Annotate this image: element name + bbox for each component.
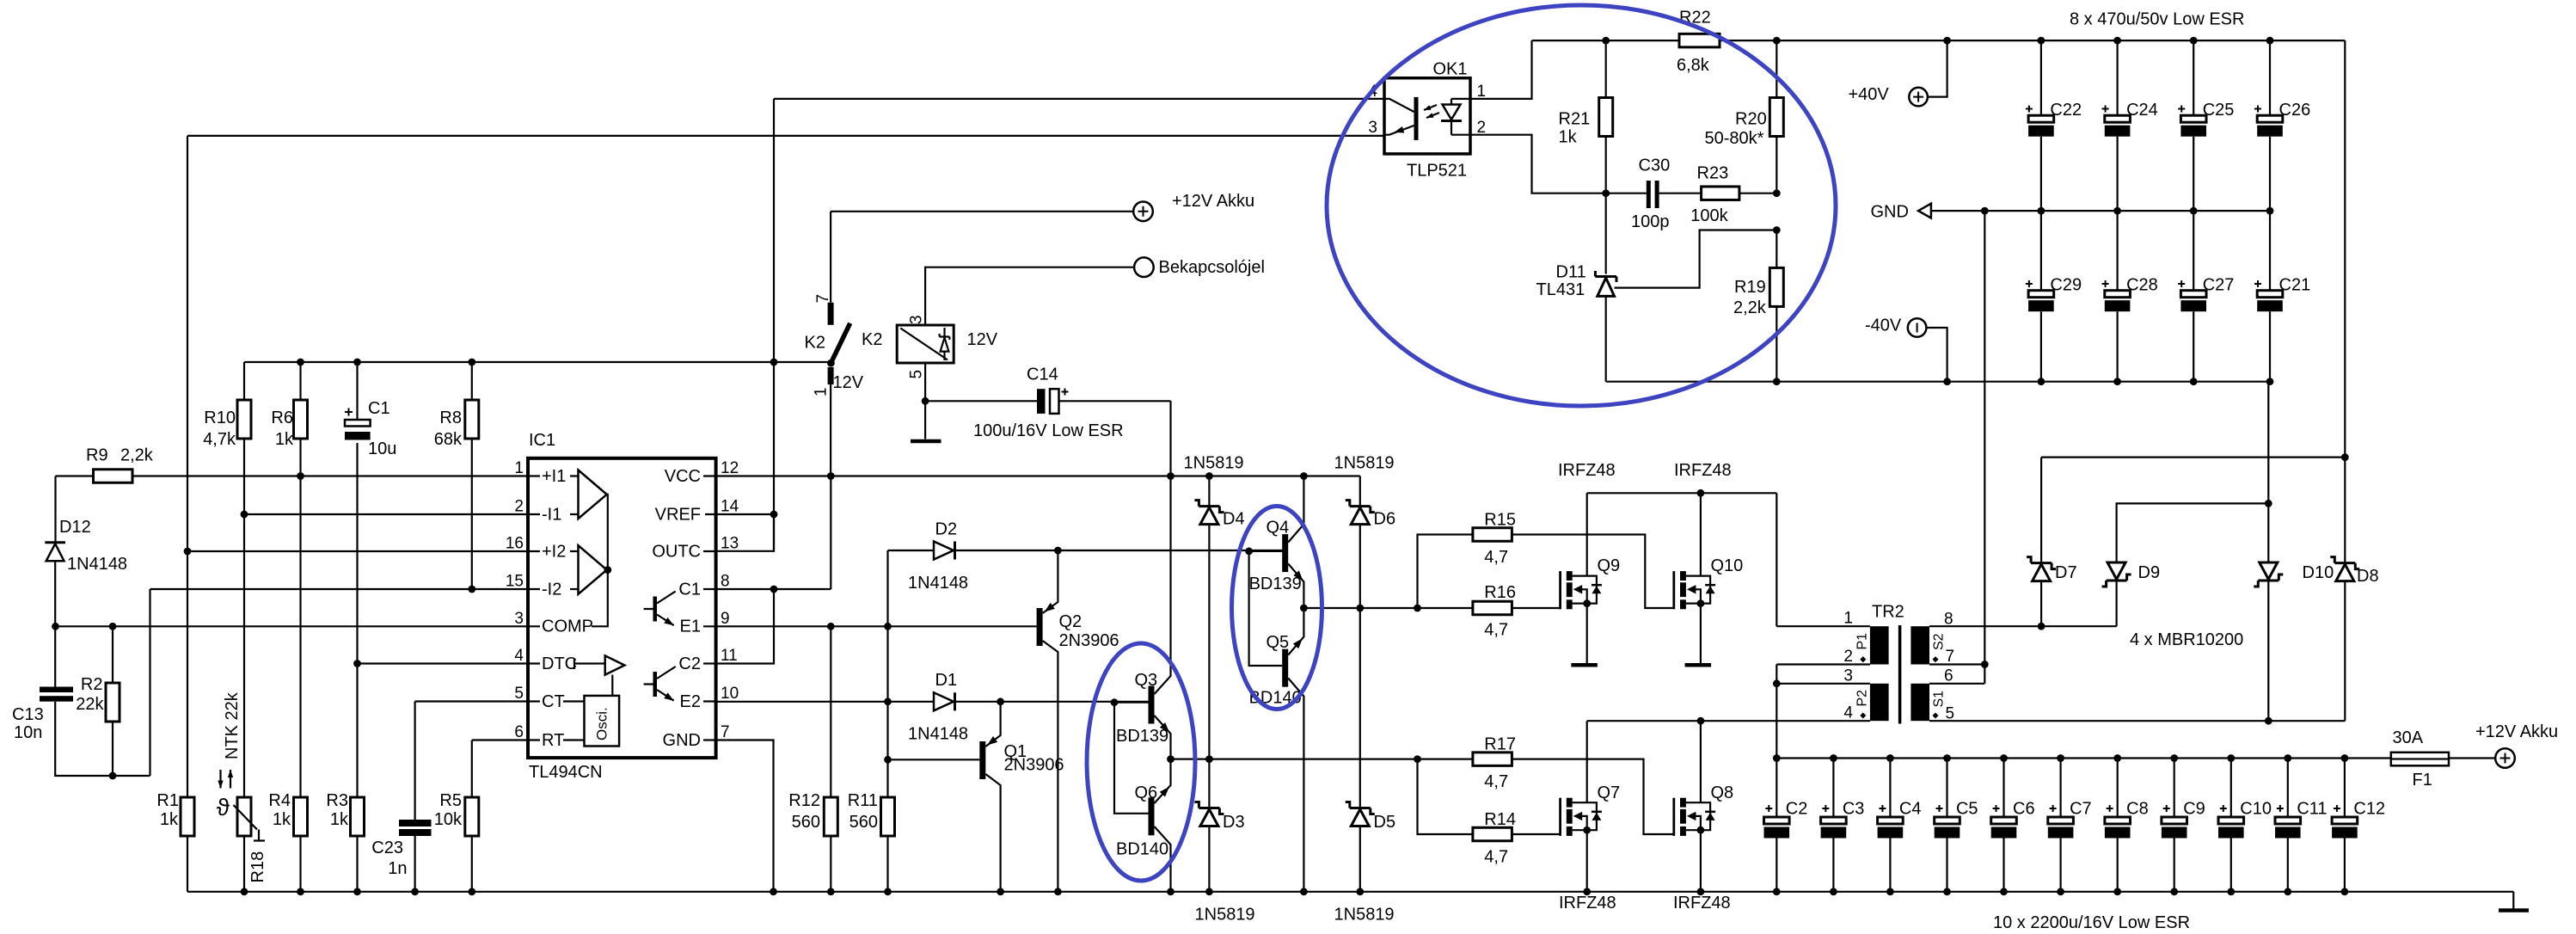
- capacitor C14 100u: [925, 400, 1037, 402]
- svg-text:16: 16: [506, 535, 524, 553]
- svg-text:C4: C4: [1899, 800, 1922, 819]
- svg-text:R4: R4: [268, 791, 291, 810]
- svg-text:4,7: 4,7: [1484, 548, 1508, 567]
- capacitor C6 2200u: [2003, 759, 2004, 818]
- svg-text:R5: R5: [439, 791, 462, 810]
- svg-text:D1: D1: [935, 671, 958, 690]
- capacitor C7 2200u: [2060, 759, 2062, 818]
- svg-text:NTK 22k: NTK 22k: [223, 691, 242, 759]
- svg-text:Osci.: Osci.: [594, 707, 610, 740]
- wire upper drain bus to TR2 pin1: [1587, 493, 1777, 626]
- svg-text:C8: C8: [2126, 800, 2149, 819]
- transformer TR2 secondary S2: [1911, 626, 1929, 664]
- svg-text:Q10: Q10: [1711, 556, 1744, 575]
- svg-text:C26: C26: [2279, 101, 2311, 120]
- wire -I2 riser: [149, 589, 150, 776]
- svg-text:D2: D2: [935, 520, 958, 539]
- diode D12 1N4148: [54, 476, 56, 543]
- svg-text:F1: F1: [2413, 771, 2432, 790]
- diode D8 MBR10200: [2344, 458, 2346, 722]
- svg-text:Q6: Q6: [1135, 783, 1158, 802]
- wire opamp outputs to COMP: [592, 495, 608, 626]
- svg-text:C11: C11: [2297, 800, 2327, 819]
- svg-text:22k: 22k: [76, 695, 104, 714]
- svg-text:C2: C2: [1786, 800, 1808, 819]
- diode D1 1N4148: [934, 692, 954, 710]
- svg-text:1: 1: [813, 387, 831, 396]
- transformer TR2 secondary S1: [1911, 684, 1929, 721]
- svg-text:12V: 12V: [967, 330, 998, 349]
- ellipse highlight Q4/Q5: [1232, 507, 1322, 710]
- svg-text:2: 2: [514, 498, 524, 516]
- resistor R8 68k: [471, 362, 473, 589]
- diode D3 1N5819: [1194, 802, 1224, 814]
- wire pin6 RT: [472, 739, 529, 740]
- capacitor C13 10n: [40, 687, 73, 693]
- svg-text:4: 4: [514, 647, 524, 665]
- terminal Bekapcsolojel circle: [1134, 257, 1154, 277]
- svg-text:4,7: 4,7: [1484, 772, 1508, 791]
- capacitor C30 100p: [1647, 181, 1651, 208]
- svg-text:D12: D12: [59, 518, 91, 537]
- svg-text:E1: E1: [680, 618, 701, 636]
- relay suppressor diode: [940, 334, 950, 340]
- wire relay pin3 to Bekapcsolojel: [925, 267, 1134, 325]
- svg-text:2,2k: 2,2k: [120, 446, 154, 465]
- svg-text:IRFZ48: IRFZ48: [1673, 894, 1731, 912]
- wire pin15 -I2: [150, 588, 530, 590]
- svg-text:R19: R19: [1734, 278, 1766, 297]
- resistor R5 10k: [465, 797, 479, 836]
- svg-text:RT: RT: [542, 731, 564, 750]
- capacitor C2 2200u: [1776, 759, 1777, 818]
- capacitor C28: [2117, 211, 2119, 291]
- capacitor C10 2200u: [2230, 759, 2232, 818]
- svg-text:R1: R1: [156, 791, 179, 810]
- svg-text:R3: R3: [326, 791, 348, 810]
- svg-text:2: 2: [1843, 648, 1853, 666]
- svg-text:C25: C25: [2203, 101, 2235, 120]
- capacitor C24: [2117, 40, 2119, 115]
- svg-text:C10: C10: [2240, 800, 2272, 819]
- svg-text:R12: R12: [788, 791, 820, 810]
- svg-text:1N4148: 1N4148: [908, 725, 968, 744]
- wire C1 pin8 to VCC and C2 pin11: [716, 476, 831, 664]
- wire lower driver output: [1171, 758, 1418, 759]
- capacitor C9 2200u: [2174, 759, 2175, 818]
- resistor R11 560: [886, 626, 888, 892]
- transistor Q6 BD140: [1149, 797, 1155, 835]
- capacitor C29: [2040, 211, 2042, 291]
- capacitor C26: [2269, 40, 2271, 115]
- svg-text:D10: D10: [2303, 563, 2334, 582]
- svg-text:-40V: -40V: [1865, 316, 1902, 335]
- transformer TR2 core: [1898, 625, 1902, 724]
- svg-text:TL431: TL431: [1536, 280, 1585, 299]
- svg-text:R15: R15: [1484, 511, 1516, 530]
- svg-text:14: 14: [721, 498, 739, 516]
- resistor R16 4,7: [1414, 605, 1421, 612]
- diode D5 1N5819: [1346, 802, 1375, 814]
- resistor R10 4,7k: [243, 362, 245, 797]
- svg-text:C12: C12: [2353, 800, 2385, 819]
- switch K2: [830, 212, 831, 303]
- svg-text:C6: C6: [2013, 800, 2035, 819]
- svg-text:CT: CT: [542, 692, 565, 711]
- wire upper driver output: [1303, 607, 1417, 609]
- transistor Q3 BD139: [1149, 686, 1155, 724]
- diode D2 1N4148: [888, 550, 1284, 626]
- svg-text:15: 15: [506, 573, 524, 591]
- terminal +12V Akku circle: [1133, 202, 1153, 222]
- svg-text:D6: D6: [1374, 510, 1396, 529]
- svg-text:R17: R17: [1484, 735, 1516, 754]
- terminal GND arrow: [1918, 204, 1931, 218]
- svg-text:4,7k: 4,7k: [203, 430, 236, 449]
- wire right edge vertical from top rail: [2344, 40, 2346, 457]
- resistor R17 4,7: [1414, 755, 1421, 763]
- svg-text:VCC: VCC: [665, 467, 701, 486]
- svg-text:C28: C28: [2126, 276, 2158, 295]
- svg-text:1N4148: 1N4148: [67, 555, 127, 574]
- capacitor C8 2200u: [2117, 759, 2119, 818]
- wire OK1 pin3 line: [187, 135, 1384, 137]
- resistor R1 1k: [181, 797, 194, 836]
- capacitor C12 2200u: [2344, 759, 2346, 818]
- wire OK1 pin2 down to C30 line: [1470, 135, 1647, 194]
- svg-text:P1: P1: [1855, 633, 1870, 650]
- svg-text:2N3906: 2N3906: [1059, 631, 1119, 650]
- svg-text:C23: C23: [371, 839, 403, 857]
- svg-text:6: 6: [1944, 667, 1953, 685]
- svg-text:100k: 100k: [1690, 206, 1728, 225]
- op-amp 2 error amp: [579, 545, 607, 594]
- wire vertical x900 (pin4 feed / VREF): [773, 99, 775, 551]
- node COMP/left vertical: [52, 623, 59, 630]
- capacitor C23 1n: [414, 702, 416, 892]
- transistor Q1 2N3906: [979, 741, 985, 779]
- capacitor C11 2200u: [2287, 759, 2289, 818]
- svg-text:1k: 1k: [275, 430, 294, 449]
- svg-text:C14: C14: [1027, 366, 1058, 384]
- resistor R15 4,7: [1418, 535, 1473, 609]
- wire D7 top line: [2041, 456, 2345, 458]
- svg-text:C30: C30: [1639, 157, 1671, 175]
- capacitor C22: [2040, 40, 2042, 115]
- wire lower drain bus to TR2 pin4: [1587, 720, 1870, 722]
- svg-text:IRFZ48: IRFZ48: [1674, 461, 1732, 480]
- svg-text:560: 560: [792, 813, 820, 832]
- svg-text:R8: R8: [439, 409, 462, 427]
- svg-text:10k: 10k: [434, 810, 463, 829]
- wire E2 pin10 / D1 line: [716, 701, 1150, 703]
- svg-text:12: 12: [721, 459, 739, 477]
- svg-text:6,8k: 6,8k: [1677, 56, 1710, 75]
- svg-text:Q8: Q8: [1711, 783, 1734, 802]
- svg-text:C9: C9: [2183, 800, 2205, 819]
- ground below relay: [924, 401, 926, 439]
- svg-text:D4: D4: [1223, 510, 1245, 529]
- svg-text:R23: R23: [1697, 164, 1729, 183]
- oscillator box Osci.: [585, 696, 620, 747]
- svg-text:D7: D7: [2055, 563, 2077, 582]
- resistor R20 50-80k: [1776, 40, 1777, 194]
- svg-text:C22: C22: [2050, 101, 2082, 120]
- svg-text:50-80k*: 50-80k*: [1705, 129, 1764, 148]
- svg-text:K2: K2: [862, 330, 882, 349]
- svg-text:1k: 1k: [330, 810, 349, 829]
- svg-text:D5: D5: [1374, 813, 1396, 832]
- svg-text:C27: C27: [2203, 276, 2235, 295]
- svg-text:Q5: Q5: [1267, 633, 1290, 652]
- wire pin5 CT: [415, 700, 529, 702]
- svg-text:1N5819: 1N5819: [1184, 454, 1244, 473]
- optocoupler phototransistor: [1414, 97, 1419, 140]
- node bus/x900 junction: [770, 359, 778, 366]
- terminal +40V: [1909, 88, 1928, 107]
- wire column x218 (pin3 line down to R1): [187, 136, 188, 797]
- svg-text:4,7: 4,7: [1484, 621, 1508, 640]
- node +I2 junction: [184, 548, 192, 556]
- transistor Q2 2N3906: [1037, 608, 1043, 646]
- wire pin3 COMP: [56, 625, 530, 627]
- svg-text:OUTC: OUTC: [652, 542, 701, 561]
- svg-text:S2: S2: [1932, 633, 1947, 650]
- svg-text:GND: GND: [663, 731, 701, 750]
- svg-text:2,2k: 2,2k: [1733, 298, 1767, 317]
- svg-text:4: 4: [1843, 704, 1853, 722]
- svg-text:5: 5: [1946, 705, 1955, 723]
- svg-text:D9: D9: [2138, 563, 2161, 582]
- svg-text:IRFZ48: IRFZ48: [1559, 894, 1616, 912]
- svg-text:-I1: -I1: [542, 505, 561, 524]
- resistor R9: [56, 475, 530, 476]
- svg-text:7: 7: [721, 723, 730, 741]
- capacitor C1 10u: [356, 362, 358, 664]
- svg-text:8 x 470u/50v Low ESR: 8 x 470u/50v Low ESR: [2070, 10, 2244, 29]
- optocoupler OK1 TLP521 box: [1384, 78, 1470, 154]
- svg-text:9: 9: [721, 610, 730, 628]
- wire VCC line pin12: [716, 475, 1360, 476]
- svg-text:100u/16V Low ESR: 100u/16V Low ESR: [973, 421, 1124, 440]
- svg-text:BD140: BD140: [1116, 840, 1168, 859]
- svg-text:C1: C1: [368, 399, 390, 418]
- capacitor C3 2200u: [1832, 759, 1834, 818]
- svg-text:R16: R16: [1484, 583, 1516, 602]
- svg-text:Bekapcsolójel: Bekapcsolójel: [1159, 258, 1265, 277]
- wire OK1 pin1 to top rail: [1470, 40, 1532, 99]
- svg-text:C3: C3: [1843, 800, 1865, 819]
- svg-text:C1: C1: [678, 580, 701, 599]
- svg-text:C29: C29: [2050, 276, 2082, 295]
- capacitor C4 2200u: [1889, 759, 1891, 818]
- resistor R21 1k: [1605, 40, 1607, 194]
- wire +12V rail: [1776, 757, 2391, 759]
- svg-text:1n: 1n: [388, 859, 407, 878]
- svg-text:IRFZ48: IRFZ48: [1558, 461, 1616, 480]
- svg-text:100p: 100p: [1631, 212, 1670, 231]
- svg-text:GND: GND: [1871, 203, 1909, 222]
- transistor Q10 IRFZ48: [1672, 571, 1675, 609]
- resistor R18 NTC trimmer: [237, 797, 251, 836]
- svg-text:P2: P2: [1855, 690, 1870, 707]
- wire E1 pin9: [716, 625, 1037, 627]
- wire TL431 ref: [1615, 230, 1777, 288]
- svg-text:10u: 10u: [368, 439, 396, 458]
- svg-text:R18: R18: [248, 851, 267, 883]
- diode D4 1N5819: [1208, 476, 1210, 808]
- svg-text:IC1: IC1: [529, 431, 555, 450]
- optocoupler light arrows: [1424, 105, 1439, 118]
- terminal +12V Akku right: [2495, 748, 2515, 768]
- wire top rail: [1532, 40, 2346, 41]
- wire OK1 pin4 line: [774, 98, 1384, 100]
- diode D7 MBR10200: [2040, 458, 2042, 627]
- node pin1/R6 junction: [297, 472, 304, 480]
- diode D11 TL431: [1605, 194, 1607, 274]
- wire GND pin7: [716, 740, 774, 892]
- wire +12V Akku line: [831, 211, 1133, 212]
- svg-text:C13: C13: [12, 705, 44, 724]
- svg-text:5: 5: [908, 370, 926, 379]
- svg-text:-I2: -I2: [542, 580, 561, 599]
- op-amp IC1 TL494CN box: [528, 458, 716, 758]
- svg-text:Q9: Q9: [1598, 556, 1621, 575]
- svg-text:+12V Akku: +12V Akku: [2475, 722, 2558, 741]
- svg-text:R2: R2: [81, 675, 103, 694]
- svg-text:Q2: Q2: [1059, 612, 1083, 631]
- svg-text:10: 10: [721, 685, 739, 703]
- transistor sym Q(C1/E1): [653, 597, 658, 622]
- svg-text:1: 1: [514, 459, 524, 477]
- ground symbol right: [2499, 908, 2529, 912]
- svg-text:7: 7: [814, 294, 832, 304]
- svg-text:R21: R21: [1559, 110, 1591, 129]
- svg-text:8: 8: [1944, 611, 1953, 629]
- svg-text:5: 5: [514, 685, 524, 703]
- svg-text:TL494CN: TL494CN: [529, 763, 603, 782]
- svg-text:Q3: Q3: [1135, 671, 1158, 690]
- svg-text:COMP: COMP: [542, 618, 593, 636]
- op-amp 1 error amp: [579, 470, 607, 519]
- transistor sym Q(C2/E2): [653, 672, 658, 697]
- resistor R2 22k: [112, 626, 113, 776]
- transformer TR2 primary P2: [1776, 683, 1870, 685]
- svg-text:10 x 2200u/16V Low ESR: 10 x 2200u/16V Low ESR: [1993, 913, 2190, 932]
- wire relay pin5: [924, 363, 926, 401]
- svg-text:R20: R20: [1735, 110, 1767, 129]
- svg-text:S1: S1: [1932, 691, 1947, 708]
- svg-text:OK1: OK1: [1433, 60, 1468, 79]
- svg-text:12V: 12V: [833, 373, 864, 392]
- svg-text:D3: D3: [1223, 813, 1245, 832]
- svg-text:30A: 30A: [2393, 728, 2424, 747]
- diode D9 MBR10200: [2117, 503, 2269, 626]
- svg-text:ϑ: ϑ: [217, 794, 230, 820]
- transistor Q5 BD140: [1282, 649, 1288, 687]
- resistor R3 1k: [351, 797, 365, 836]
- svg-text:E2: E2: [680, 692, 701, 711]
- svg-text:TLP521: TLP521: [1407, 162, 1467, 181]
- svg-text:DTC: DTC: [542, 654, 577, 673]
- svg-text:R14: R14: [1484, 810, 1516, 829]
- svg-text:R6: R6: [271, 409, 293, 427]
- wire bottom ground rail: [187, 892, 2513, 909]
- svg-text:11: 11: [721, 647, 738, 665]
- svg-text:R11: R11: [848, 791, 878, 810]
- svg-text:TR2: TR2: [1872, 603, 1904, 622]
- optocoupler LED: [1451, 99, 1470, 105]
- svg-text:C24: C24: [2126, 101, 2158, 120]
- svg-text:1: 1: [1843, 610, 1853, 628]
- wire pin2 -I1: [244, 513, 529, 515]
- svg-text:VREF: VREF: [655, 505, 701, 524]
- svg-text:Q7: Q7: [1598, 783, 1621, 802]
- terminal -40V: [1908, 318, 1927, 337]
- svg-text:K2: K2: [805, 334, 825, 353]
- svg-text:D8: D8: [2357, 567, 2379, 586]
- capacitor C25: [2193, 40, 2194, 115]
- svg-text:1k: 1k: [1559, 128, 1578, 147]
- transistor Q7 IRFZ48: [1559, 798, 1561, 836]
- svg-text:R10: R10: [204, 409, 236, 427]
- diode D6 1N5819: [1359, 476, 1361, 808]
- capacitor C27: [2193, 211, 2194, 291]
- svg-text:C7: C7: [2070, 800, 2092, 819]
- transistor Q8 IRFZ48: [1672, 798, 1675, 836]
- resistor R6 1k: [299, 362, 301, 797]
- svg-text:BD139: BD139: [1116, 727, 1168, 746]
- transistor Q4 BD139: [1282, 534, 1288, 572]
- wire pin4 DTC: [358, 662, 530, 664]
- diode D10 MBR10200: [2267, 382, 2269, 722]
- DTC comparator: [574, 659, 605, 670]
- ellipse highlight feedback: [1327, 5, 1836, 406]
- svg-text:2N3906: 2N3906: [1004, 756, 1064, 775]
- wire VREF to OUTC loop: [716, 514, 774, 551]
- svg-text:4,7: 4,7: [1484, 848, 1508, 867]
- svg-text:68k: 68k: [434, 430, 463, 449]
- svg-text:3: 3: [908, 315, 926, 324]
- capacitor C5 2200u: [1946, 759, 1947, 818]
- svg-text:+I2: +I2: [542, 542, 566, 561]
- capacitor C21: [2269, 211, 2271, 291]
- wire pin16 +I2: [187, 550, 529, 552]
- svg-text:4 x MBR10200: 4 x MBR10200: [2130, 630, 2243, 649]
- svg-text:6: 6: [514, 723, 524, 741]
- svg-text:C5: C5: [1956, 800, 1978, 819]
- svg-text:3: 3: [1843, 667, 1853, 685]
- wire GND drop to center tap: [1984, 211, 1985, 664]
- resistor R23 100k: [1702, 187, 1739, 200]
- svg-text:+12V Akku: +12V Akku: [1172, 192, 1254, 211]
- svg-text:8: 8: [721, 573, 730, 591]
- svg-text:Q4: Q4: [1267, 519, 1290, 538]
- svg-text:3: 3: [1368, 119, 1377, 137]
- svg-text:1N5819: 1N5819: [1195, 906, 1255, 925]
- svg-text:10n: 10n: [14, 723, 42, 742]
- resistor R12 560: [830, 626, 831, 892]
- ellipse highlight Q3/Q6: [1087, 643, 1195, 881]
- svg-text:3: 3: [514, 610, 524, 628]
- svg-text:C21: C21: [2279, 276, 2311, 295]
- svg-text:+40V: +40V: [1849, 85, 1890, 104]
- fuse F1 30A: [2391, 753, 2449, 766]
- svg-text:1N4148: 1N4148: [908, 574, 968, 593]
- wire VREF bus top: [244, 361, 831, 363]
- svg-text:1k: 1k: [160, 810, 179, 829]
- resistor R22 6,8k: [1679, 34, 1720, 47]
